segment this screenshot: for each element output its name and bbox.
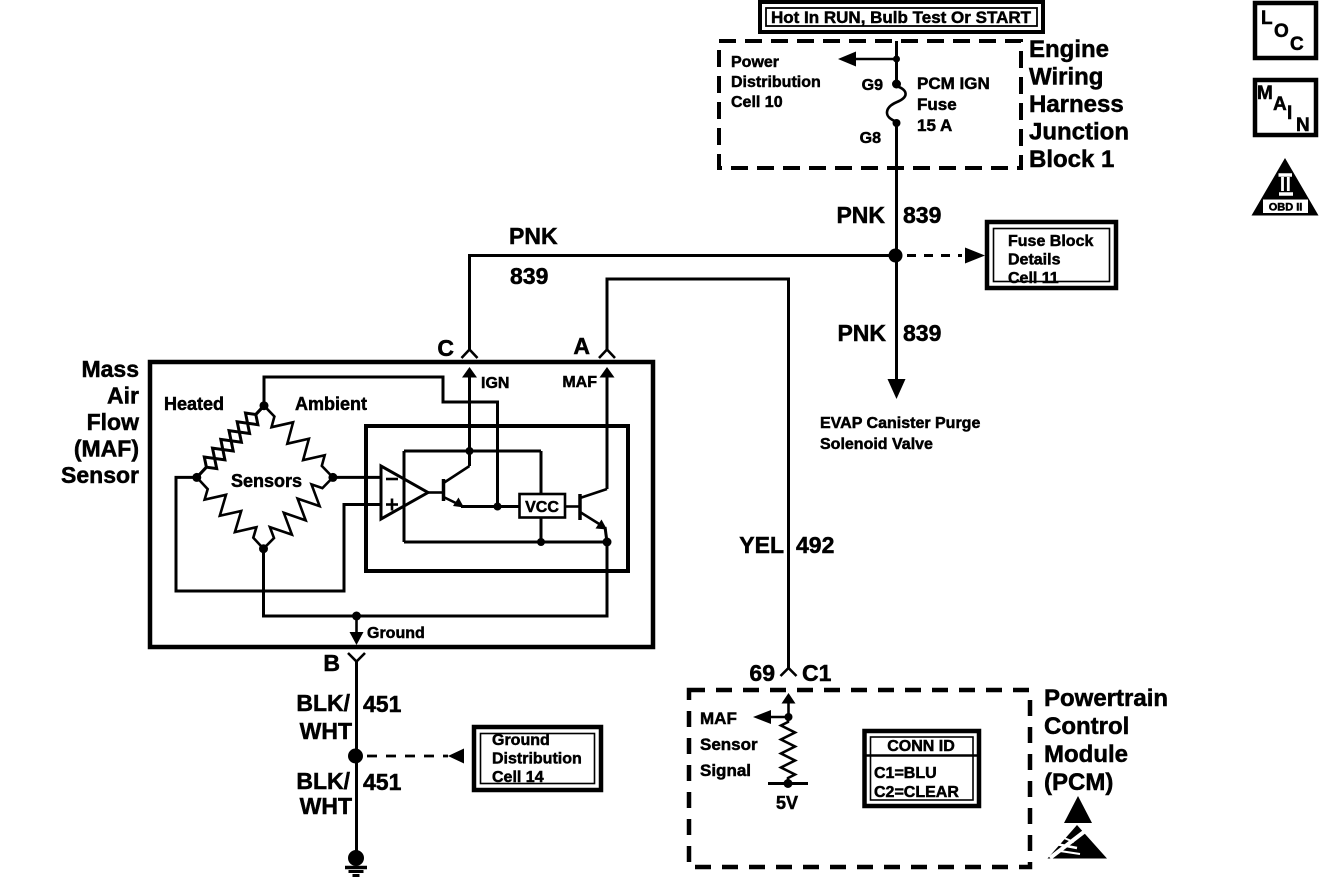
svg-text:L: L — [1261, 8, 1273, 29]
pin arrow IGN — [462, 367, 477, 466]
svg-text:MAF: MAF — [562, 374, 597, 391]
svg-text:5V: 5V — [776, 793, 798, 813]
wire Q2 emitter down — [605, 527, 607, 542]
wire Q1 emitter to VCC — [461, 505, 520, 508]
svg-text:Air: Air — [107, 383, 139, 409]
resistor bridge bottom-right arm — [264, 477, 333, 548]
icon MAIN box — [1255, 80, 1316, 136]
svg-text:Mass: Mass — [81, 356, 139, 382]
svg-text:IGN: IGN — [481, 375, 509, 392]
wire bridge right to op-amp minus input — [333, 476, 381, 479]
svg-text:G8: G8 — [860, 130, 881, 147]
ground G101 — [345, 850, 367, 876]
svg-text:A: A — [573, 333, 590, 359]
svg-text:PNK: PNK — [509, 223, 558, 249]
callout box Ground Distribution Cell 14 — [474, 727, 601, 790]
svg-text:839: 839 — [510, 263, 548, 289]
wire bridge left loop to op-amp plus input — [176, 477, 381, 591]
svg-text:Module: Module — [1044, 741, 1128, 768]
svg-text:B: B — [323, 650, 340, 676]
svg-text:A: A — [1273, 94, 1287, 115]
pin arrow MAF — [600, 367, 615, 489]
PCM dashed box — [689, 690, 1030, 867]
wire BLK/WHT 451 upper — [355, 662, 358, 757]
wire IGN rail — [404, 450, 541, 453]
dashed arrow to Fuse Block Details — [907, 248, 985, 264]
svg-text:M: M — [1257, 83, 1273, 104]
svg-text:Ambient: Ambient — [295, 394, 367, 414]
arrow MAF Sensor Signal label pointer — [753, 710, 789, 724]
svg-text:G9: G9 — [862, 77, 883, 94]
svg-text:Control: Control — [1044, 713, 1129, 740]
svg-text:Power: Power — [731, 54, 779, 71]
svg-text:Fuse: Fuse — [917, 95, 957, 114]
svg-text:CONN ID: CONN ID — [887, 738, 955, 755]
wire bottom rail — [404, 541, 607, 544]
wire VCC feed down — [540, 451, 543, 494]
svg-text:Harness: Harness — [1029, 91, 1124, 118]
wire BLK/WHT 451 lower — [355, 756, 358, 852]
svg-text:PNK: PNK — [837, 320, 886, 346]
svg-text:Wiring: Wiring — [1029, 64, 1103, 91]
wire from banner into junction block — [895, 41, 898, 84]
resistor pull-up in PCM — [781, 717, 795, 783]
svg-text:Details: Details — [1008, 252, 1061, 269]
resistor bridge bottom-left arm — [197, 477, 264, 548]
svg-text:Flow: Flow — [87, 409, 139, 435]
node 5V rail — [768, 779, 808, 788]
arrow to Power Distribution — [838, 52, 900, 67]
svg-text:Ground: Ground — [367, 625, 425, 642]
svg-text:492: 492 — [796, 532, 834, 558]
svg-text:Signal: Signal — [700, 761, 751, 780]
svg-text:Sensor: Sensor — [61, 462, 139, 488]
svg-text:MAF: MAF — [700, 709, 737, 728]
svg-text:WHT: WHT — [300, 718, 352, 744]
node emitter bottom junction — [603, 538, 612, 547]
transistor Q2 — [565, 489, 607, 530]
svg-text:Heated: Heated — [164, 394, 224, 414]
svg-text:C: C — [437, 335, 454, 361]
node MAF signal junction — [785, 713, 793, 721]
node bridge top — [260, 401, 269, 410]
amplifier inner box — [366, 426, 628, 571]
svg-text:15 A: 15 A — [917, 116, 952, 135]
arrow MAF sensor signal pin — [782, 693, 796, 717]
wire feedback left drop — [403, 451, 406, 542]
svg-text:WHT: WHT — [300, 793, 352, 819]
svg-text:Block 1: Block 1 — [1029, 146, 1114, 173]
svg-text:Cell 11: Cell 11 — [1008, 270, 1059, 287]
node bridge bottom — [259, 544, 268, 553]
node bridge right — [328, 473, 337, 482]
svg-text:C2=CLEAR: C2=CLEAR — [874, 784, 959, 801]
node emitter junction — [494, 503, 502, 511]
wire PNK 839 from fuse to junction node — [895, 123, 898, 256]
svg-text:Cell 10: Cell 10 — [731, 94, 783, 111]
callout box Fuse Block Details Cell 11 — [987, 222, 1116, 288]
icon LOC box — [1255, 3, 1316, 58]
svg-text:451: 451 — [363, 769, 402, 795]
table CONN ID — [865, 731, 980, 806]
wire A pin up and over to YEL 492 — [607, 279, 789, 668]
svg-text:N: N — [1296, 115, 1310, 136]
svg-text:Engine: Engine — [1029, 36, 1109, 63]
fuse F1 PCM IGN Fuse 15A — [887, 80, 906, 128]
node ground junction — [352, 612, 361, 621]
svg-text:VCC: VCC — [525, 499, 559, 516]
MAF sensor box — [150, 362, 653, 647]
svg-text:O: O — [1274, 21, 1289, 42]
svg-text:Distribution: Distribution — [492, 751, 582, 768]
resistor bridge ambient (top-right arm) — [264, 406, 333, 478]
svg-text:(PCM): (PCM) — [1044, 769, 1113, 796]
svg-text:Fuse Block: Fuse Block — [1008, 233, 1093, 250]
svg-text:BLK/: BLK/ — [296, 690, 350, 716]
svg-text:Powertrain: Powertrain — [1044, 685, 1168, 712]
svg-text:Junction: Junction — [1029, 119, 1129, 146]
svg-text:EVAP Canister Purge: EVAP Canister Purge — [820, 415, 980, 432]
svg-text:451: 451 — [363, 691, 402, 717]
icon OBD II triangle — [1252, 158, 1319, 216]
dashed arrow to Ground Distribution — [367, 749, 464, 764]
svg-text:BLK/: BLK/ — [296, 768, 350, 794]
resistor bridge heated element (top-left arm) — [197, 406, 264, 478]
svg-text:OBD II: OBD II — [1269, 202, 1303, 214]
svg-text:Ground: Ground — [492, 732, 550, 749]
svg-text:C1=BLU: C1=BLU — [874, 765, 937, 782]
node ground distribution junction — [348, 749, 363, 764]
wire VCC bottom — [540, 518, 543, 543]
ESD sensitive device symbol — [1048, 796, 1108, 859]
svg-text:I: I — [1287, 103, 1292, 124]
wire PNK 839 horizontal to MAF pin C — [470, 256, 897, 351]
node bridge left — [192, 473, 201, 482]
svg-text:Solenoid Valve: Solenoid Valve — [820, 436, 933, 453]
svg-text:Sensors: Sensors — [231, 471, 302, 491]
svg-text:Cell 14: Cell 14 — [492, 769, 544, 786]
block VCC — [520, 494, 566, 518]
svg-text:PCM IGN: PCM IGN — [917, 74, 990, 93]
wire bridge bottom to ground rail — [264, 542, 608, 616]
svg-text:Hot In RUN, Bulb Test Or START: Hot In RUN, Bulb Test Or START — [771, 8, 1032, 27]
svg-text:69: 69 — [749, 660, 775, 686]
wire PNK 839 down to EVAP arrow — [895, 262, 898, 382]
node junction on PNK 839 — [889, 249, 903, 263]
svg-text:C: C — [1290, 34, 1304, 55]
svg-text:839: 839 — [903, 202, 941, 228]
svg-text:Distribution: Distribution — [731, 74, 821, 91]
svg-text:PNK: PNK — [836, 202, 885, 228]
node IGN rail junction — [466, 447, 474, 455]
transistor Q1 — [428, 451, 470, 508]
wire bridge top to VCC feed — [264, 377, 498, 506]
junction block dashed box — [719, 41, 1021, 168]
op-amp U1 — [381, 466, 428, 519]
arrow ground to pin B — [350, 616, 364, 645]
svg-text:YEL: YEL — [739, 532, 784, 558]
svg-text:C1: C1 — [802, 660, 832, 686]
node VCC bottom junction — [537, 538, 545, 546]
svg-text:(MAF): (MAF) — [74, 436, 139, 462]
svg-text:839: 839 — [903, 320, 941, 346]
banner box Hot In RUN, Bulb Test Or START — [760, 2, 1043, 32]
svg-text:Sensor: Sensor — [700, 735, 758, 754]
